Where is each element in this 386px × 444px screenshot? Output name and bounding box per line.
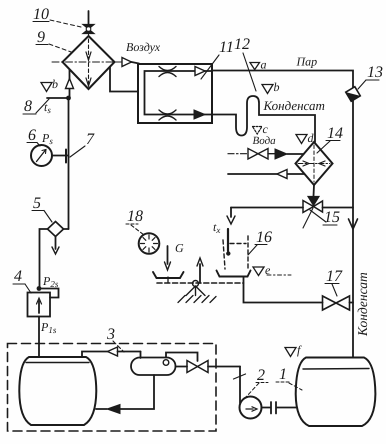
label 5: [32, 195, 52, 222]
svg-text:Конденсат: Конденсат: [355, 272, 370, 337]
label 13: [358, 64, 383, 89]
wire valve to pump with break mark: [234, 367, 246, 404]
label 15: [303, 208, 340, 228]
gauge 6 (pressure gauge P_s): [31, 145, 69, 166]
svg-text:18: 18: [127, 208, 143, 225]
svg-text:11: 11: [219, 39, 234, 56]
measuring vessel 16 (dashed) with thermometer: [213, 220, 248, 269]
label 10: [33, 6, 81, 27]
label 6, P_s, 7: [27, 127, 95, 157]
label 8 and t_s: [23, 98, 51, 115]
wire valve 15 branch lines: [227, 208, 353, 225]
svg-text:a: a: [261, 58, 267, 72]
svg-text:13: 13: [367, 64, 383, 81]
svg-text:9: 9: [37, 29, 45, 46]
wire tank to separator 3 with open left arrow: [82, 347, 141, 358]
label 11: [201, 39, 234, 79]
label 9: [36, 29, 74, 53]
svg-text:4: 4: [14, 268, 22, 285]
wire separator 3 return to left tank with filled arrow: [96, 375, 154, 414]
pump 2: [240, 397, 262, 419]
condensate U-trap: [212, 96, 315, 142]
svg-text:G: G: [175, 241, 184, 255]
marker b (top-left): [41, 77, 58, 92]
node P2s junction with loop: [37, 274, 59, 298]
tank 1 (condensate collector): [296, 358, 376, 427]
svg-text:c: c: [263, 122, 269, 136]
water inlet valve and arrow: [228, 149, 304, 160]
wire left main line: [68, 98, 70, 229]
valve after separator 3: [176, 361, 241, 373]
svg-text:7: 7: [86, 131, 95, 148]
air inlet arrow (Воздух): [115, 40, 161, 67]
node t_s junction: [47, 96, 71, 101]
wire diamond 5 to regulator 4: [40, 229, 48, 289]
label 4 and P_1s: [13, 268, 57, 335]
svg-text:3: 3: [106, 326, 115, 343]
left pan of balance with G arrow: [153, 241, 184, 283]
svg-text:Пар: Пар: [296, 55, 318, 69]
marker a and steam label: [250, 55, 317, 72]
svg-text:14: 14: [327, 125, 343, 142]
wire diamond 9 to t_s node, with up arrow: [66, 70, 74, 98]
svg-text:6: 6: [28, 127, 36, 144]
up arrow at pivot: [197, 258, 203, 283]
dashed rig boundary box: [8, 344, 217, 432]
label 14: [317, 125, 343, 153]
water outlet with open arrow: [228, 170, 305, 179]
svg-text:b: b: [52, 77, 58, 91]
regulator 4 (box): [28, 293, 51, 317]
sight glass 13 (diamond, half filled): [344, 85, 362, 103]
label 16: [248, 229, 272, 255]
svg-text:Вода: Вода: [253, 135, 277, 147]
label 17: [325, 268, 343, 296]
separator 3 (horizontal capsule): [131, 353, 198, 376]
stopwatch 18: [139, 233, 160, 254]
svg-text:17: 17: [326, 268, 343, 285]
svg-text:d: d: [308, 131, 315, 145]
wire cooler to valve 15: [313, 185, 316, 196]
svg-text:1: 1: [279, 366, 287, 383]
svg-text:b: b: [274, 80, 280, 94]
wire vessel drain to valve 17: [244, 277, 323, 303]
marker e: [253, 263, 291, 277]
wire regulator to left tank: [38, 317, 40, 358]
svg-text:16: 16: [256, 229, 272, 246]
balance pivot and stand with hatching: [178, 281, 216, 303]
valve 10: [83, 25, 94, 34]
wire right main condensate line: [212, 71, 353, 358]
labels 2 and 1: [246, 366, 302, 397]
label 3: [106, 326, 124, 352]
svg-text:8: 8: [24, 98, 32, 115]
down arrow on right line: [349, 219, 358, 229]
svg-text:2: 2: [257, 367, 265, 384]
flange union on pump outlet: [262, 402, 297, 414]
svg-text:10: 10: [33, 6, 49, 23]
three-way valve 15: [303, 197, 323, 213]
calorimeter box 11: [138, 64, 212, 123]
svg-text:Конденсат: Конденсат: [263, 98, 325, 113]
svg-text:12: 12: [234, 36, 250, 53]
left tank (boiler): [19, 357, 96, 425]
wire vent line above valve 10: [88, 11, 90, 25]
cooler 14 (diamond): [296, 142, 333, 185]
wire diamond 9 to box 11: [110, 67, 138, 92]
label 18: [126, 208, 144, 235]
marker f: [285, 343, 302, 357]
right pan of balance: [217, 271, 251, 277]
balance beam: [157, 282, 244, 284]
label 12: [234, 36, 256, 91]
marker b (trap): [262, 80, 280, 94]
svg-text:Воздух: Воздух: [126, 40, 161, 54]
flow restrictor 5 (small diamond): [48, 222, 69, 255]
saturator 9 (diamond): [52, 33, 124, 89]
marker d: [296, 131, 315, 145]
svg-text:5: 5: [33, 195, 41, 212]
valve 17: [323, 296, 354, 310]
marker c and water label: [253, 122, 277, 147]
svg-text:15: 15: [324, 209, 340, 226]
